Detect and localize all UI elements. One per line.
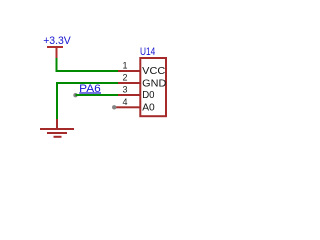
ground symbol stem (56, 119, 58, 130)
svg-text:A0: A0 (142, 102, 155, 114)
pin 1 line (118, 70, 140, 72)
svg-text:1: 1 (122, 61, 127, 71)
wire PA6 to pin 3 (76, 94, 119, 96)
component U14 body (140, 58, 166, 116)
svg-text:4: 4 (122, 97, 127, 107)
pin 4 line (116, 106, 140, 108)
wire +3.3V vertical (56, 58, 58, 72)
svg-text:2: 2 (122, 73, 127, 83)
pin 3 line (118, 94, 140, 96)
pin 4 unconnected dot (112, 105, 116, 109)
svg-text:VCC: VCC (142, 65, 165, 77)
wire GND vertical (56, 82, 58, 119)
svg-text:U14: U14 (140, 46, 155, 58)
wire +3.3V horizontal to pin 1 (56, 70, 119, 72)
svg-text:3: 3 (122, 85, 127, 95)
net label PA6 underline (79, 92, 101, 93)
svg-text:GND: GND (142, 77, 167, 89)
wire PA6 start dot (73, 93, 77, 97)
svg-text:D0: D0 (142, 89, 154, 101)
wire GND horizontal to pin 2 (56, 82, 118, 84)
power port +3.3V stem (56, 48, 58, 59)
power port +3.3V bar (47, 46, 63, 48)
pin 2 line (118, 82, 140, 84)
ground symbol bar 3 (54, 136, 62, 138)
ground symbol bar 2 (47, 132, 67, 134)
svg-text:+3.3V: +3.3V (43, 35, 71, 47)
ground symbol bar 1 (40, 128, 74, 130)
